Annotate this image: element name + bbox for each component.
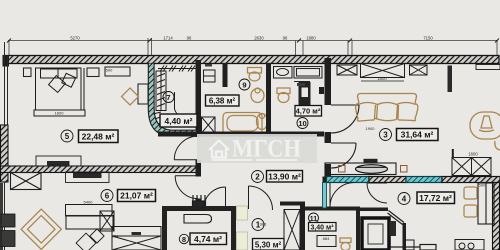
svg-text:954: 954 (112, 234, 119, 239)
hanger marks top row (room 7) (158, 66, 196, 72)
kitchen burner square right (401, 166, 408, 173)
watermark house icon (209, 141, 229, 158)
washer drain line (294, 81, 310, 83)
svg-text:500: 500 (106, 68, 113, 73)
svg-text:4,74 м²: 4,74 м² (194, 234, 222, 244)
room 2 area label 13,90 (267, 171, 303, 183)
room 4 bottom furniture 2 (420, 245, 436, 250)
room 6 wardrobe bottom (112, 227, 161, 250)
room 4 chair 2 (tan) (464, 205, 477, 217)
svg-text:7150: 7150 (423, 36, 433, 41)
svg-text:21,07 м²: 21,07 м² (120, 191, 153, 201)
south wall band: black part 3 (442, 177, 500, 183)
room 5 nightstand left (24, 68, 32, 77)
room 5 chair (tan) (122, 88, 139, 105)
door to room 5 leaf+arc (174, 136, 198, 160)
room 8 area label 4,74 (190, 233, 227, 245)
svg-text:1714: 1714 (163, 36, 173, 41)
svg-text:98: 98 (283, 36, 288, 41)
room 7 area label 4,40 (160, 114, 197, 127)
bathroom 9 stub wall (223, 63, 228, 87)
bathroom 9 shelf (204, 70, 216, 82)
svg-text:5,30 м²: 5,30 м² (255, 241, 282, 250)
room 3 table with lamp (tan) (470, 112, 500, 150)
room 6 armchair (tan diamond) (21, 209, 61, 249)
wall between room 9 and 10 (266, 63, 271, 136)
svg-text:5: 5 (65, 132, 70, 141)
room 6 number circle (101, 190, 113, 202)
dressing room 7 curved wall (151, 64, 196, 134)
room 3 wardrobe X 3 (410, 65, 428, 75)
room 3 sofa (tan) (356, 94, 418, 122)
room 4 dining table (478, 183, 494, 224)
svg-text:3,40 м²: 3,40 м² (310, 225, 334, 232)
room 6 chair diamond 1 (76, 233, 96, 250)
room 4 number circle (398, 193, 410, 205)
kitchen sink (356, 165, 388, 174)
svg-text:386: 386 (260, 222, 267, 227)
hanger rack left (room 7) (153, 71, 166, 124)
room 4 wardrobe X double (452, 149, 491, 176)
room 4 door leaf+arc (367, 183, 387, 203)
left wall lower thin (0, 182, 5, 250)
svg-text:3: 3 (383, 131, 388, 140)
room 10 shower column (dark) (299, 82, 311, 108)
top exterior wall (hatched) (4, 56, 499, 64)
kitchen burner square left (339, 166, 346, 173)
furniture dim labels tiny (55, 68, 487, 242)
hall wardrobe X tall (284, 210, 300, 250)
room 5 dresser top (105, 67, 130, 76)
svg-text:22,48 м²: 22,48 м² (82, 132, 115, 142)
room 4 bottom line (390, 246, 420, 248)
room 6 wardrobe X right (100, 211, 114, 231)
pale new wall strip right of room 8 (237, 206, 248, 250)
room 3 area label 31,64 (397, 129, 439, 141)
svg-text:1900: 1900 (366, 126, 376, 131)
bathroom 11 area label 3,40 (309, 223, 337, 232)
room 6 chair diamond 2 (90, 229, 104, 243)
room 4 chair 1 (tan) (464, 187, 477, 199)
room 8 walls (162, 206, 236, 250)
room 10 toilet (277, 88, 290, 103)
south wall band: teal part 1 (327, 177, 370, 183)
room 3 wardrobe X 1 (337, 65, 357, 75)
shaft with X (room 9 corner) (202, 117, 216, 133)
teal wall below band (kitchen/hall divider) (323, 183, 327, 209)
svg-text:6,38 м²: 6,38 м² (209, 97, 236, 106)
room 8 number circle (179, 234, 188, 244)
room 10 vanity (274, 67, 293, 79)
room 6 TV on wall (66, 172, 110, 183)
south wall band: black part 2 (369, 177, 406, 183)
svg-text:МГСН: МГСН (232, 136, 301, 163)
room 5 area label 22,48 (79, 130, 119, 143)
svg-text:6: 6 (105, 192, 110, 201)
ventilation shaft (362, 218, 389, 250)
room 5 desk by wall (138, 84, 148, 104)
svg-text:1800: 1800 (377, 76, 387, 81)
room 5 TV stand bottom (36, 156, 81, 166)
door room3 upper leaf+arc (331, 105, 359, 133)
hall area label 5,30 (cut) (253, 239, 285, 250)
room 6 desk lower part (66, 216, 113, 230)
radiator left 1 (1, 214, 15, 227)
kitchen door leaf+arc (330, 183, 355, 208)
room 10 washer (294, 67, 322, 79)
watermark backing (197, 134, 317, 163)
svg-text:1600: 1600 (468, 152, 478, 157)
door room3 lower leaf+arc (331, 143, 356, 168)
svg-text:13,90 м²: 13,90 м² (268, 172, 301, 182)
room 7 door leaf+arc (175, 92, 196, 122)
room 4 bottom furniture 3 (455, 240, 484, 250)
room 8 counter (184, 215, 212, 224)
room 5 bed (34, 68, 85, 116)
room 8 door leaf+arc (204, 187, 226, 209)
toilet room 9 top (248, 68, 262, 82)
door to room 6 leaf+arc (175, 176, 198, 199)
dimension ticks (7, 39, 499, 43)
room 7 number circle (163, 92, 174, 103)
svg-text:4,70 м²: 4,70 м² (296, 107, 321, 116)
svg-text:5400: 5400 (84, 200, 94, 205)
svg-text:4: 4 (402, 195, 407, 204)
bidet room 9 (257, 114, 268, 130)
hall door to room 2 leaf+arc (249, 186, 273, 210)
svg-text:17,72 м²: 17,72 м² (419, 193, 452, 203)
bathtub room 9 (223, 113, 262, 135)
room 3 wardrobe X 2 (wide) (361, 64, 405, 82)
central vertical wall (hall/room2 divider) (196, 60, 202, 137)
kitchen counter (325, 163, 396, 175)
wall room2/room3 divider (325, 58, 332, 105)
left exterior wall: window part (5, 42, 8, 126)
svg-text:8: 8 (182, 235, 186, 244)
dimension line top (8, 38, 498, 65)
duct beside shaft (390, 221, 397, 236)
south wall band: teal part 2 (406, 177, 442, 183)
svg-text:1880: 1880 (306, 36, 316, 41)
bottom wall of rooms 7/9/10 (158, 132, 324, 137)
svg-text:5270: 5270 (70, 36, 80, 41)
wall stub left of window band (323, 177, 327, 183)
kitchen hob (dark) (364, 159, 378, 164)
svg-text:7: 7 (166, 93, 170, 102)
top-left corner block (3, 55, 10, 67)
room 3 partition bar (448, 66, 453, 93)
room 6 area label 21,07 (118, 190, 156, 202)
duct above room 8 (193, 195, 206, 207)
svg-text:2: 2 (255, 173, 260, 182)
svg-text:98: 98 (187, 36, 192, 41)
wall between rooms 5 and 6 (hatched) (1, 166, 199, 173)
room 4 right wall hatched (493, 183, 500, 250)
room 3 shelf right (476, 65, 500, 70)
room 5 nightstand right (87, 68, 99, 77)
wall hall/bathroom11 (300, 202, 305, 250)
svg-text:2630: 2630 (254, 36, 264, 41)
bathroom 11 washer (317, 236, 336, 247)
room 2 number circle (252, 171, 264, 183)
svg-text:4,40 м²: 4,40 м² (164, 116, 192, 126)
room 10 area label 4,70 (295, 106, 322, 117)
svg-text:884: 884 (323, 236, 330, 241)
sink room 9 (251, 88, 264, 103)
room 4 bottom furniture 1 (405, 240, 414, 250)
room 5 number circle (61, 130, 73, 142)
svg-text:1600: 1600 (55, 111, 65, 116)
hall 1 number circle (252, 219, 264, 231)
dark fitting on wall (319, 87, 324, 94)
room 4 chamfer corner (diagonal wall) (388, 211, 405, 225)
svg-text:10: 10 (298, 119, 306, 128)
dimension labels (tiny) (70, 36, 433, 41)
svg-text:31,64 м²: 31,64 м² (401, 130, 434, 140)
bathroom 11 walls (305, 207, 388, 250)
room 4 area label 17,72 (417, 192, 455, 204)
wall above hall (room2 bottom) (280, 202, 305, 206)
room 6 wardrobe X top-left (11, 173, 42, 190)
room 10 number circle (297, 118, 308, 129)
bathroom 11 number circle (309, 213, 319, 223)
bathroom 9 area label 6,38 (206, 95, 240, 106)
bathroom 11 toilet (340, 238, 351, 250)
room 6 desk (66, 205, 113, 217)
svg-text:9: 9 (242, 81, 246, 90)
bathroom 9 number circle (239, 79, 250, 90)
watermark subtitle dashes (212, 159, 297, 161)
radiator left 2 (1, 231, 15, 247)
svg-text:500: 500 (479, 183, 486, 188)
room 3 number circle (380, 129, 392, 141)
room 4 left wall lower (403, 223, 407, 250)
left exterior wall: hatched part (1, 125, 9, 182)
